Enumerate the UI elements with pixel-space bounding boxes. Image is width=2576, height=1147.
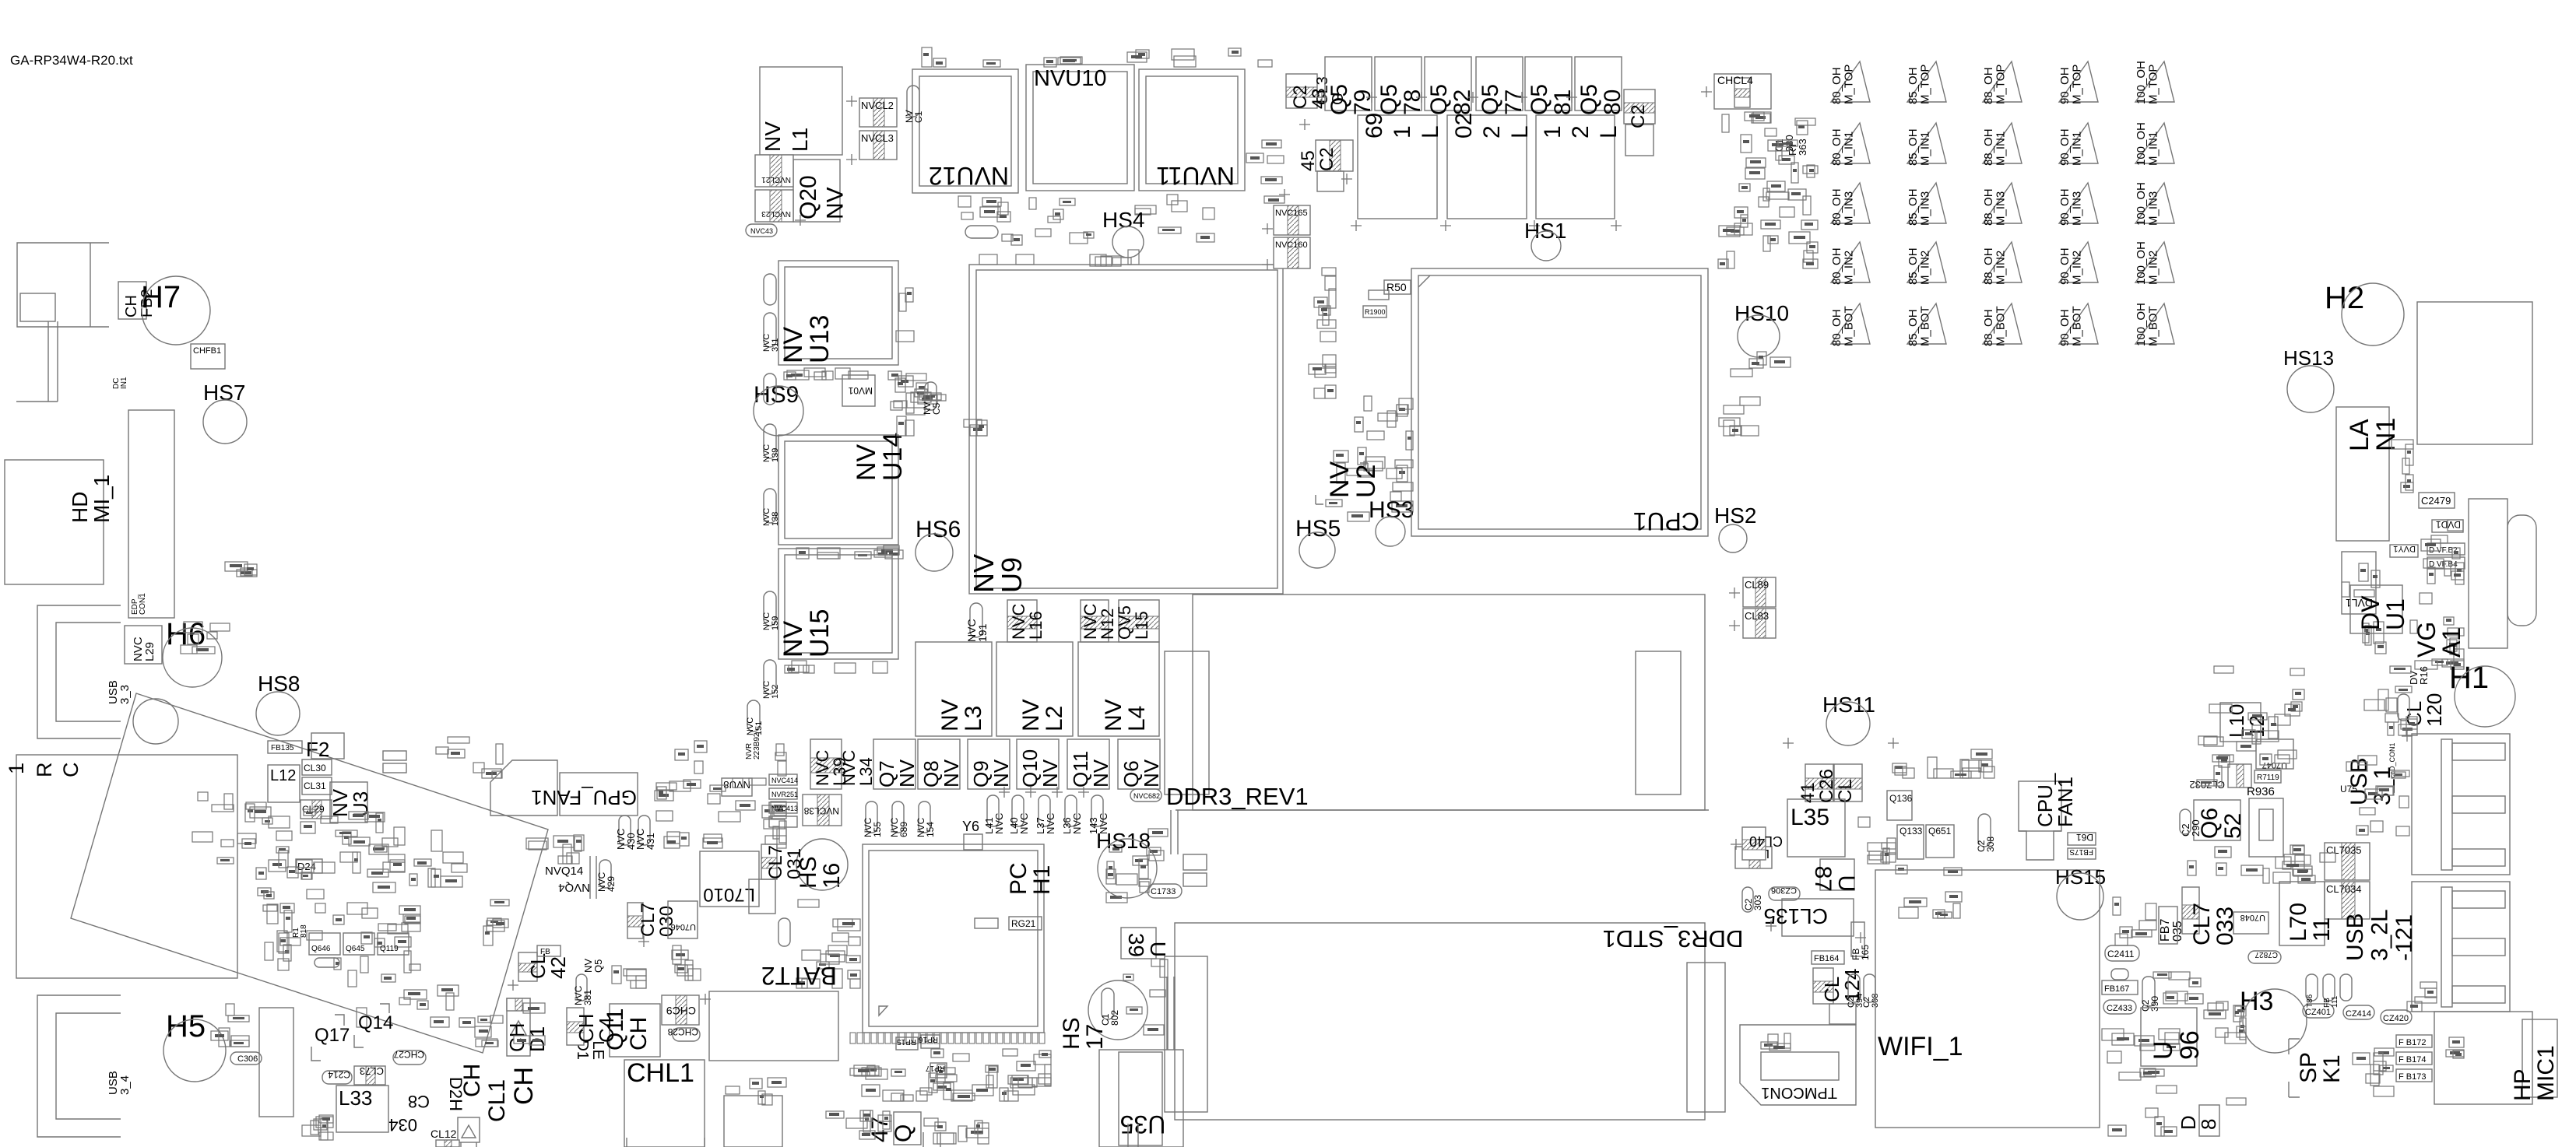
capacitor pairs column right of U9 [1309, 268, 1336, 398]
ic DVL1 [2342, 552, 2376, 614]
svg-text:NVC165: NVC165 [1275, 209, 1308, 218]
svg-text:CL7031: CL7031 [765, 845, 805, 879]
capacitor CL41 [1834, 764, 1862, 801]
small parts row under U15 [785, 661, 887, 673]
svg-text:NVCL23: NVCL23 [761, 209, 791, 218]
svg-text:CHD1: CHD1 [505, 1022, 549, 1052]
svg-text:CL7035: CL7035 [2326, 844, 2362, 856]
svg-text:85_OHM_TOP: 85_OHM_TOP [1907, 65, 1932, 104]
test point 85_OH M_IN1 [1907, 123, 1946, 163]
small parts cluster left of CL42 row [483, 900, 509, 945]
test point 85_OH M_IN3 [1907, 183, 1946, 223]
capacitor NVC2 [965, 226, 998, 238]
svg-text:CZ433: CZ433 [2107, 1004, 2132, 1013]
capacitor CHC27 [393, 1051, 426, 1065]
capacitors C2 394 row [1848, 974, 1860, 1002]
inductor L12 [268, 765, 300, 802]
memory slot DDR3_REV1 [1193, 595, 1705, 810]
small parts cluster right of GPU_FAN1 [655, 741, 786, 848]
svg-text:NVCL38: NVCL38 [803, 805, 839, 816]
small parts cluster left of L33 [316, 1115, 333, 1140]
capacitor C2479 [2419, 493, 2455, 508]
svg-text:CHCL4: CHCL4 [1717, 74, 1753, 86]
svg-text:NVU9: NVU9 [968, 554, 1028, 593]
fan connector GPU_FAN1 [490, 760, 557, 816]
svg-text:FB: FB [540, 948, 550, 956]
svg-text:F B173: F B173 [2399, 1072, 2426, 1082]
test point 85_OH M_TOP [1907, 61, 1946, 102]
test point 85_OH M_BOT [1907, 303, 1946, 344]
capacitor NVC138 pill [764, 489, 776, 523]
svg-text:C2479: C2479 [2421, 495, 2451, 507]
connector below BATT2 [724, 1096, 782, 1147]
small parts cluster right of Q5 row [1718, 112, 1818, 268]
svg-text:NVCL3: NVCL3 [861, 132, 894, 144]
svg-text:NVCN12: NVCN12 [1081, 603, 1117, 640]
small parts cluster above U96 [2113, 897, 2156, 945]
capacitor column left of H3 [2204, 1001, 2246, 1105]
capacitor CZ433 [2103, 1000, 2136, 1014]
heatsink hole HS17 [1088, 980, 1147, 1040]
capacitor CL7035 [2325, 843, 2370, 880]
small parts cluster card reader right [409, 830, 467, 887]
small parts cluster around Q47 [826, 1110, 891, 1139]
svg-text:L35: L35 [1791, 805, 1829, 830]
capacitor C2 near Q580 [1624, 89, 1655, 124]
svg-text:HS3: HS3 [1369, 497, 1414, 523]
svg-text:CHC27: CHC27 [393, 1049, 424, 1060]
svg-text:L12: L12 [270, 767, 296, 784]
svg-text:C8: C8 [408, 1092, 430, 1111]
test point 80_OH M_IN3 [1831, 183, 1870, 223]
ic U 39 [1121, 928, 1156, 959]
svg-text:CZ414: CZ414 [2346, 1009, 2371, 1019]
test point 100_OH M_TOP [2135, 61, 2174, 102]
inductor NV L3 [915, 642, 992, 736]
transistor Q136 [1887, 791, 1912, 820]
svg-text:RG21: RG21 [1011, 918, 1036, 929]
svg-text:NVC5: NVC5 [922, 402, 942, 415]
wire stubs bottom center [461, 1138, 705, 1147]
svg-text:H2: H2 [2325, 281, 2364, 315]
small parts cluster around FB17x [2353, 1048, 2394, 1096]
capacitors T86 FB column [2306, 974, 2318, 1001]
inductor L10 12 [2220, 703, 2261, 742]
ic CPU1 (large BGA) [1411, 268, 1708, 536]
ic NVU8 [722, 778, 752, 796]
svg-text:80_OHM_IN1: 80_OHM_IN1 [1830, 128, 1856, 166]
capacitor NV C1 pill [907, 86, 919, 117]
svg-text:DCIN1: DCIN1 [112, 377, 128, 389]
transistor Q6 52 [2194, 800, 2240, 840]
svg-text:NVC413: NVC413 [771, 805, 798, 812]
diode D61 [2068, 833, 2096, 845]
ic U7048 [2233, 912, 2268, 934]
transistor Q579 [1325, 57, 1372, 110]
test point 88_OH M_IN1 [1983, 123, 2022, 163]
small parts cluster above GPU_FAN1 [436, 737, 503, 778]
capacitor CL30 [302, 759, 332, 775]
small parts cluster below PCH [850, 1049, 1051, 1101]
transistor Q11 (NV) [1067, 739, 1109, 789]
small parts cluster left of PCH [796, 900, 860, 988]
svg-text:CH: CH [459, 1064, 485, 1097]
svg-text:MV01: MV01 [848, 385, 873, 396]
capacitor C1 802 [1102, 988, 1114, 1019]
wire stub between DDR3 slots [1171, 810, 1178, 854]
wire stubs above U35 [1167, 977, 1174, 1050]
small parts on top edge of U9 [1090, 254, 1121, 266]
svg-text:CL31: CL31 [304, 780, 326, 791]
test point 80_OH M_BOT [1831, 303, 1870, 344]
ic NVU12 [912, 69, 1018, 193]
capacitor CL7 033 [2182, 887, 2199, 934]
transistor Q8 (NV) [918, 739, 960, 789]
svg-text:GPU_FAN1: GPU_FAN1 [531, 786, 637, 809]
resistor FB167 [2102, 980, 2138, 994]
svg-text:CPU_FAN1: CPU_FAN1 [2033, 773, 2077, 827]
transistor NV Q20 [793, 160, 840, 222]
capacitor QV5 L15 [1119, 600, 1159, 642]
resistor R164 [1369, 290, 1389, 300]
ic NVU10 [1026, 65, 1134, 191]
ic NV U14 [778, 435, 898, 545]
test point 100_OH M_IN3 [2135, 183, 2174, 223]
svg-text:Q6NV: Q6NV [1119, 759, 1163, 787]
svg-text:NVCL2: NVCL2 [861, 100, 894, 111]
memory slot DDR3_STD1 [1175, 923, 1705, 1120]
resistor RG21 [1009, 917, 1042, 930]
svg-text:85_OHM_IN1: 85_OHM_IN1 [1907, 128, 1932, 166]
small parts column left of LAN [2391, 440, 2413, 493]
test point 100_OH M_IN2 [2135, 242, 2174, 282]
test point 80_OH M_TOP [1831, 61, 1870, 102]
resistor packs RP15 RP16 RP17 [896, 1037, 918, 1050]
svg-text:R936: R936 [2247, 785, 2275, 798]
connector USB_3_2 [2412, 882, 2510, 1012]
small parts cluster around L35 [1858, 817, 1896, 864]
capacitor NVCL3 [859, 131, 897, 160]
svg-text:R50: R50 [1386, 281, 1407, 293]
svg-text:90_OHM_IN2: 90_OHM_IN2 [2058, 247, 2084, 285]
svg-text:45C2: 45C2 [1298, 147, 1337, 171]
ic U3 [330, 782, 367, 823]
svg-text:RP17: RP17 [926, 1064, 945, 1072]
svg-text:90_OHM_TOP: 90_OHM_TOP [2058, 65, 2084, 104]
capacitor NVC165 [1274, 205, 1310, 235]
LAN magnetics block [2336, 407, 2389, 541]
svg-text:100_OHM_BOT: 100_OHM_BOT [2135, 303, 2160, 346]
svg-text:HS15: HS15 [2055, 865, 2106, 889]
svg-text:U7048: U7048 [2240, 913, 2265, 922]
svg-text:88_OHM_IN1: 88_OHM_IN1 [1982, 128, 2008, 166]
small rect and pill near PCH left bottom [749, 879, 775, 914]
svg-text:NVCL21: NVCL21 [761, 175, 791, 184]
transistor Q578 [1375, 57, 1422, 110]
capacitor NVC160 [1274, 237, 1310, 268]
battery connector BATT2 [709, 991, 838, 1061]
connector HP MIC1 (audio jack) [2434, 1012, 2532, 1104]
capacitor CL7 030 [627, 903, 643, 938]
inductor L169 [1358, 115, 1437, 219]
small parts cluster right of PCH [1106, 829, 1168, 903]
capacitor NVC311 pill [764, 313, 776, 347]
svg-text:CL30: CL30 [304, 763, 326, 773]
svg-text:R1900: R1900 [1365, 308, 1386, 316]
capacitor row L41 L40 L37 L36 NVC143 [987, 795, 999, 826]
svg-text:U75: U75 [2340, 784, 2357, 794]
svg-text:H3: H3 [2240, 987, 2273, 1016]
svg-text:85_OHM_BOT: 85_OHM_BOT [1907, 306, 1932, 346]
resistors NV R54 R55 [964, 419, 987, 436]
transistor Q577 [1476, 57, 1523, 110]
svg-text:CL1: CL1 [484, 1079, 510, 1122]
svg-text:DVD1: DVD1 [2436, 519, 2461, 530]
svg-text:NVC682: NVC682 [1133, 792, 1160, 800]
inductor NV L2 [996, 642, 1073, 736]
capacitors C7 E33 area [672, 945, 701, 980]
svg-text:DVY1: DVY1 [2393, 544, 2416, 553]
connector CHL1 [624, 1060, 705, 1147]
svg-text:CHC4: CHC4 [575, 1013, 618, 1043]
inductor L70 11 [2279, 882, 2325, 945]
svg-text:85_OHM_IN3: 85_OHM_IN3 [1907, 188, 1932, 226]
svg-text:D24: D24 [297, 861, 316, 872]
svg-text:C306: C306 [237, 1054, 258, 1064]
wire stubs below DDR3_STD1 left ear [1168, 977, 1175, 1050]
svg-text:CZ306: CZ306 [1771, 886, 1797, 895]
test point 80_OH M_IN2 [1831, 242, 1870, 282]
capacitor NVC152 pill [764, 660, 776, 694]
capacitor NVC159 pill [764, 591, 776, 626]
svg-text:CL42: CL42 [526, 953, 570, 979]
small parts cluster near H5 [211, 1004, 249, 1047]
small parts row above NVU blocks [922, 47, 1272, 67]
capacitor C7827 [2248, 951, 2281, 963]
svg-text:Q646: Q646 [311, 945, 331, 953]
capacitor NVC682 [1130, 789, 1161, 801]
connector DC_IN bracket top-left [17, 243, 109, 327]
small parts cluster left of DVL1 [2342, 563, 2386, 654]
capacitor CL7034 [2325, 882, 2370, 919]
transistors Q646 Q645 Q119 [309, 933, 340, 955]
resistor R7119 [2254, 770, 2281, 783]
test point 85_OH M_IN2 [1907, 242, 1946, 282]
svg-text:BATT2: BATT2 [761, 962, 837, 990]
svg-text:Q14: Q14 [358, 1012, 393, 1033]
svg-text:88_OHM_BOT: 88_OHM_BOT [1982, 306, 2008, 346]
transistor Q651 [1926, 825, 1954, 858]
svg-text:NVC414: NVC414 [771, 777, 798, 784]
ic WIFI_1 (mini PCIe module) [1875, 870, 2100, 1128]
test point 88_OH M_TOP [1983, 61, 2022, 102]
svg-text:DDR3_STD1: DDR3_STD1 [1603, 925, 1744, 952]
svg-text:88_OHM_TOP: 88_OHM_TOP [1982, 65, 2008, 104]
capacitor CL73 [354, 1066, 385, 1085]
small parts cluster between PCH and DDR [1123, 959, 1168, 1035]
svg-text:USB3_2L-121: USB3_2L-121 [2342, 909, 2417, 961]
capacitor CL7032 [2228, 764, 2251, 787]
svg-text:R: R [33, 763, 56, 778]
component NVCL29 [125, 626, 162, 664]
svg-text:L7010: L7010 [703, 884, 755, 905]
svg-text:Q119: Q119 [380, 945, 399, 953]
capacitor C2411 [2105, 945, 2139, 961]
capacitor CL7 031 [761, 844, 777, 879]
ic U 87 [1820, 859, 1854, 890]
svg-text:Q7NV: Q7NV [875, 759, 919, 787]
capacitor CL83 [1743, 609, 1776, 638]
capacitor CL 124 [1813, 968, 1833, 1004]
small parts row under PCH (pad row) [850, 1033, 1045, 1044]
components NVC414 NVR251 NVC413 [769, 774, 797, 785]
resistor FB164 [1812, 951, 1844, 964]
capacitors CZ401 CZ414 CZ420 row [2303, 1004, 2334, 1018]
svg-text:Q133: Q133 [1899, 826, 1923, 837]
small parts cluster around Q6 [2197, 666, 2304, 786]
component CHFB1 [191, 344, 225, 369]
test point 80_OH M_IN1 [1831, 123, 1870, 163]
svg-text:RP15: RP15 [897, 1037, 916, 1046]
svg-text:CL12: CL12 [431, 1128, 457, 1140]
small parts row under U14 [796, 545, 903, 559]
svg-text:CL83: CL83 [1745, 610, 1769, 622]
test point 100_OH M_BOT [2135, 303, 2174, 344]
capacitor NVC139 pill [764, 424, 776, 458]
capacitor CL135 [1782, 899, 1854, 936]
svg-text:C1733: C1733 [1151, 887, 1176, 896]
diode D23 [315, 958, 339, 967]
wire stubs below U35 [923, 1124, 1138, 1147]
svg-text:90_OHM_IN1: 90_OHM_IN1 [2058, 128, 2084, 166]
svg-text:F2: F2 [306, 738, 329, 761]
svg-text:C214: C214 [328, 1069, 350, 1080]
inductor NV L1 [760, 67, 842, 155]
test point 90_OH M_IN2 [2059, 242, 2098, 282]
svg-text:80_OHM_BOT: 80_OHM_BOT [1830, 306, 1856, 346]
ic MV01 and parts [842, 375, 875, 406]
test point 88_OH M_IN3 [1983, 183, 2022, 223]
capacitor C2 45 [1316, 140, 1353, 171]
svg-text:U7046: U7046 [671, 922, 696, 931]
svg-text:CHFB1: CHFB1 [193, 346, 221, 356]
svg-text:DDR3_REV1: DDR3_REV1 [1166, 783, 1309, 810]
small parts cluster right of L35 [1896, 865, 1962, 918]
svg-text:FB7035: FB7035 [2159, 919, 2184, 942]
small parts cluster near H6 [181, 622, 230, 654]
capacitors C2 390 column [2142, 977, 2155, 1006]
component FB135 [268, 741, 302, 753]
svg-text:80_OHM_IN3: 80_OHM_IN3 [1830, 188, 1856, 226]
svg-text:CL7033: CL7033 [2189, 903, 2238, 945]
svg-text:CL7034: CL7034 [2326, 883, 2362, 895]
transistor Q11 CH [610, 1004, 660, 1057]
capacitor NVC 191 pill [970, 603, 982, 637]
connector shield rect beside HDMI [128, 410, 174, 618]
svg-text:NVQ4: NVQ4 [558, 881, 590, 894]
small parts cluster below Q6 [2188, 845, 2304, 875]
ic NVU11 [1139, 69, 1245, 191]
test point 100_OH M_IN1 [2135, 123, 2174, 163]
resistor FB 165 [1851, 922, 1864, 956]
svg-text:CL89: CL89 [1745, 579, 1769, 591]
ic PCH1 (large BGA) [863, 844, 1044, 1033]
capacitor CL89 [1743, 577, 1776, 607]
svg-text:L33: L33 [339, 1086, 372, 1110]
capacitor CH C4 [567, 1008, 584, 1045]
ic U7047 [2256, 739, 2293, 769]
small parts cluster left inside CR1 [192, 792, 234, 864]
svg-text:80_OHM_IN2: 80_OHM_IN2 [1830, 247, 1856, 285]
svg-text:Q651: Q651 [1928, 826, 1952, 837]
diode D24 [296, 859, 322, 873]
small parts cluster card reader lower [258, 882, 420, 973]
capacitors NVC429 NVC430 NVC431 [619, 816, 631, 845]
ic U7046 [668, 901, 698, 938]
svg-text:EDP_CON1: EDP_CON1 [131, 593, 147, 615]
svg-text:80_OHM_TOP: 80_OHM_TOP [1830, 65, 1856, 104]
component CHFB2 [118, 282, 146, 319]
svg-text:Q9NV: Q9NV [969, 759, 1013, 787]
svg-text:LAN1: LAN1 [2345, 418, 2401, 451]
small parts cluster near HDMI bottom [225, 562, 257, 577]
small parts cluster below CL42 [612, 966, 646, 988]
svg-text:HS10: HS10 [1734, 301, 1789, 325]
test point 90_OH M_IN3 [2059, 183, 2098, 223]
svg-text:NVU8: NVU8 [723, 779, 750, 791]
svg-text:F B172: F B172 [2399, 1038, 2426, 1047]
small parts cluster far left of H3 [2153, 972, 2203, 1004]
svg-text:GA-RP34W4-R20.txt: GA-RP34W4-R20.txt [10, 53, 133, 68]
capacitor CHC9 [662, 995, 699, 1025]
svg-text:FB164: FB164 [1814, 954, 1839, 963]
svg-text:U35: U35 [1120, 1110, 1166, 1138]
capacitor NVCL21 [755, 155, 793, 187]
svg-text:Q645: Q645 [346, 945, 365, 953]
capacitor NV C91 pill [764, 274, 776, 305]
small parts row left of CPU_FAN1 [1892, 749, 1994, 778]
connector HDMI_1 (HDMI port) [5, 460, 104, 584]
svg-text:FB135: FB135 [271, 744, 294, 752]
svg-text:NVQ14: NVQ14 [545, 865, 583, 878]
svg-text:1: 1 [5, 763, 28, 774]
card reader CR1 tilted outline [71, 693, 548, 1053]
capacitor CZ306 [1769, 887, 1800, 900]
connector USB_3_3 (USB stack) [37, 605, 121, 738]
svg-text:85_OHM_IN2: 85_OHM_IN2 [1907, 247, 1932, 285]
ic U 96 [2141, 1008, 2197, 1066]
inductor L202 [1447, 115, 1527, 219]
svg-text:SPK1: SPK1 [2296, 1052, 2345, 1083]
capacitor NVC381 [576, 974, 587, 1001]
svg-text:CHL1: CHL1 [627, 1058, 694, 1088]
svg-text:CHC28: CHC28 [667, 1026, 698, 1037]
tall rect connector below H5 [259, 1008, 293, 1117]
svg-text:R7119: R7119 [2257, 773, 2279, 782]
svg-text:CZ401: CZ401 [2305, 1008, 2331, 1017]
ic NV U13 [778, 261, 898, 365]
test point 90_OH M_TOP [2059, 61, 2098, 102]
svg-text:C2411: C2411 [2107, 949, 2135, 959]
capacitor C2 308 [1978, 814, 1991, 847]
transistor Q581 [1525, 57, 1572, 110]
svg-text:Y6: Y6 [962, 819, 979, 834]
fan connector CPU_FAN1 [2019, 781, 2061, 831]
connector VGA1 (DB15) [2469, 499, 2507, 648]
transistor Q133 [1897, 825, 1924, 859]
capacitor NVCL23 [755, 190, 793, 222]
svg-text:CPU1: CPU1 [1633, 507, 1699, 535]
